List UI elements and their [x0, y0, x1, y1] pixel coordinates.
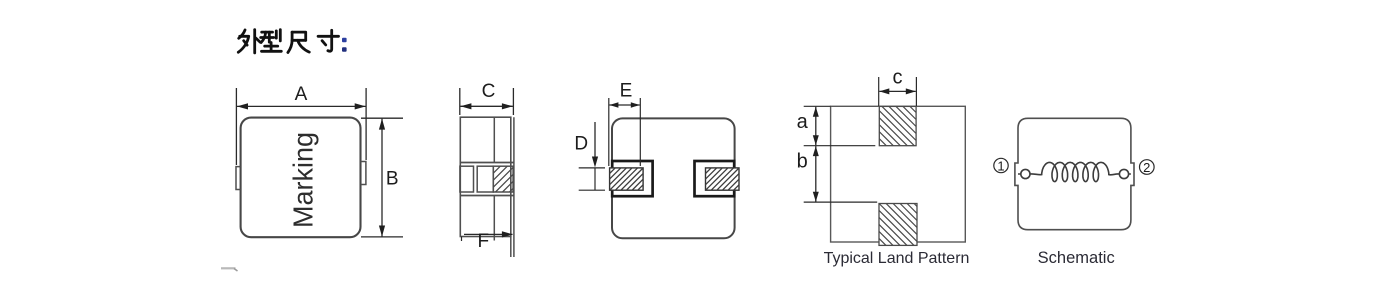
fig2 inner vertical line — [493, 117, 495, 240]
svg-text:D: D — [574, 134, 588, 155]
dimension c arrow line — [879, 90, 916, 92]
svg-text:b: b — [797, 151, 808, 173]
fig4 outer square — [831, 106, 966, 242]
svg-text:Typical Land Pattern: Typical Land Pattern — [824, 250, 970, 267]
fig4 bottom pad — [879, 204, 917, 246]
fig1 left terminal tab — [236, 167, 241, 190]
dimension a/b extension lines — [804, 106, 878, 202]
dimension b arrow — [815, 146, 817, 202]
svg-text:1: 1 — [997, 158, 1004, 173]
dimension C extension lines — [460, 88, 514, 115]
dimension E arrow line — [609, 104, 639, 106]
wire stub left — [1018, 173, 1021, 175]
svg-text:B: B — [386, 169, 399, 190]
pin label 1 — [994, 158, 1008, 172]
svg-text:E: E — [620, 81, 633, 102]
dimension C arrow line — [460, 105, 513, 107]
dimension E extension lines — [609, 98, 641, 166]
svg-text:Schematic: Schematic — [1038, 249, 1115, 267]
dimension D lines — [594, 122, 596, 158]
dimension B arrow line — [381, 119, 383, 237]
fig5 terminal 2 circle — [1119, 169, 1128, 178]
svg-text:Marking: Marking — [288, 132, 319, 228]
wire stub right — [1129, 173, 1131, 175]
svg-text:C: C — [482, 81, 496, 102]
dimension c extension lines — [879, 77, 917, 106]
inductor coil L — [1030, 162, 1119, 181]
fig3 body outline — [612, 118, 735, 238]
svg-text:2: 2 — [1143, 160, 1150, 175]
svg-text:A: A — [295, 84, 308, 105]
fig3 left pad hatched — [610, 168, 644, 190]
fig3 right pad hatched — [706, 168, 740, 190]
svg-text:c: c — [893, 67, 903, 89]
fig1 body outline — [241, 118, 361, 238]
svg-text:F: F — [477, 231, 489, 252]
fig5 terminal 1 circle — [1021, 169, 1030, 178]
title 外型尺寸: — [238, 30, 338, 53]
dimension a arrow — [815, 107, 817, 146]
stray faint line bottom left — [221, 267, 236, 269]
fig4 top pad — [879, 106, 916, 145]
fig5 body outline with terminal notches — [1015, 118, 1134, 229]
fig2 band lines — [460, 163, 514, 196]
dimension F leader — [464, 233, 513, 235]
fig2 band middle box — [477, 166, 493, 192]
fig3 left pad frame — [612, 161, 652, 196]
fig1 right terminal tab — [361, 162, 366, 185]
fig2 band hatched box — [493, 166, 513, 192]
dimension B extension lines — [361, 118, 403, 237]
dimension A extension lines — [236, 88, 366, 165]
pin label 2 — [1140, 160, 1155, 175]
svg-text:a: a — [797, 111, 809, 133]
fig2 right terminal double line — [511, 117, 514, 257]
fig2 band left box — [460, 166, 474, 192]
fig2 body outline — [460, 117, 511, 236]
title colon — [342, 38, 347, 42]
fig3 right pad frame — [695, 161, 735, 196]
dimension A arrow line — [237, 105, 366, 107]
